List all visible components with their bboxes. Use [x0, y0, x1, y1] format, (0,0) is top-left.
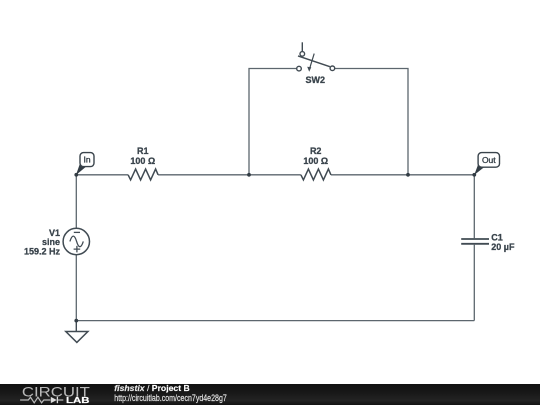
junction dot at ground [74, 319, 78, 323]
junction dot at Out node [472, 173, 476, 177]
wire V1 bottom to ground node [75, 255, 77, 321]
wire R1 to R2 [158, 174, 301, 176]
svg-text:http://circuitlab.com/cecn7yd4: http://circuitlab.com/cecn7yd4e28g7 [114, 393, 227, 403]
CircuitLab logo wordmark CIRCUIT [22, 383, 91, 399]
node In flag [76, 153, 94, 176]
svg-text:20 µF: 20 µF [491, 242, 515, 252]
voltage source V1 [24, 228, 90, 257]
footer bar [0, 384, 540, 405]
svg-text:100 Ω: 100 Ω [303, 156, 328, 166]
node Out flag [474, 153, 499, 175]
CircuitLab logo wordmark LAB [66, 395, 90, 405]
ground [66, 321, 88, 343]
svg-text:LAB: LAB [66, 395, 90, 405]
wire In node down to V1 top [75, 175, 77, 229]
svg-text:Out: Out [482, 155, 496, 165]
wire bottom rail [76, 320, 474, 322]
CircuitLab logo resistor-diode line [20, 397, 63, 403]
wire switch loop right [335, 69, 408, 175]
svg-text:SW2: SW2 [306, 75, 326, 85]
svg-text:R1: R1 [137, 146, 149, 156]
resistor R2 [301, 146, 331, 180]
junction dot at In node [74, 173, 78, 177]
capacitor C1 [461, 233, 515, 252]
svg-text:100 Ω: 100 Ω [130, 156, 155, 166]
svg-text:fishstix / Project B: fishstix / Project B [114, 383, 189, 393]
wire switch loop left [249, 69, 297, 175]
wire C1 to bottom rail [473, 245, 475, 321]
switch SW2 [297, 42, 335, 85]
svg-text:R2: R2 [310, 146, 322, 156]
svg-text:159.2 Hz: 159.2 Hz [24, 247, 61, 257]
svg-text:In: In [83, 155, 90, 165]
resistor R1 [128, 146, 158, 180]
wire In node to R1 [76, 174, 128, 176]
footer project title [114, 383, 189, 393]
junction dot right switch tap [406, 173, 410, 177]
wire Out node down to C1 [473, 175, 475, 238]
footer url [114, 393, 227, 403]
wire R2 to Out node [331, 174, 474, 176]
junction dot left switch tap [247, 173, 251, 177]
svg-text:sine: sine [42, 237, 60, 247]
